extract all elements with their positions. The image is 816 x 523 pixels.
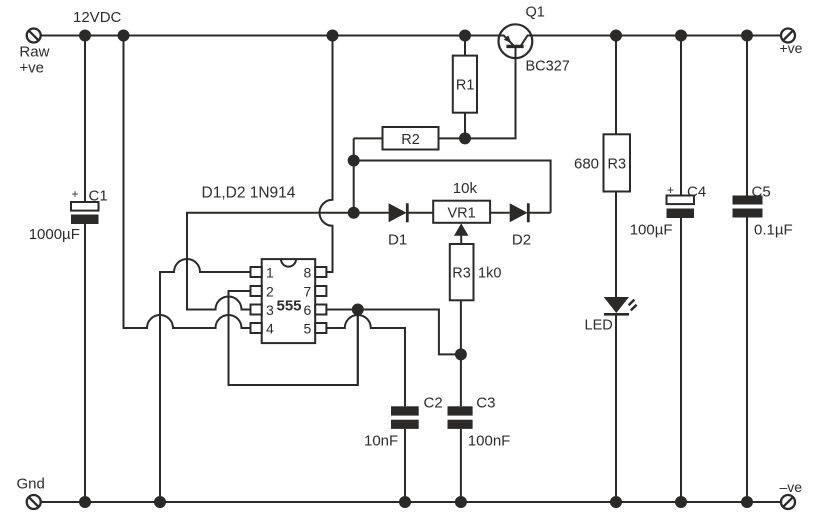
capacitor C3 <box>448 406 473 429</box>
pin box 1 <box>251 267 262 277</box>
svg-text:5: 5 <box>304 321 312 337</box>
svg-text:0.1µF: 0.1µF <box>754 222 793 239</box>
svg-text:–ve: –ve <box>780 479 803 495</box>
capacitor C2 <box>391 406 419 429</box>
svg-text:+ve: +ve <box>780 40 803 56</box>
svg-text:8: 8 <box>304 265 312 281</box>
terminal Raw +ve (top left) <box>27 29 41 43</box>
svg-text:1k0: 1k0 <box>478 265 501 281</box>
wire 555 pin1 to ground rail <box>160 259 251 502</box>
LED <box>604 297 637 314</box>
wire C3 to ground rail <box>460 429 462 502</box>
junction dot bottom rail C5 <box>741 496 753 508</box>
svg-text:100nF: 100nF <box>468 433 511 450</box>
svg-text:BC327: BC327 <box>526 59 570 75</box>
pin box 5 <box>315 323 326 333</box>
junction dot top rail C1 <box>79 30 91 42</box>
svg-text:12VDC: 12VDC <box>73 9 122 26</box>
resistor R2 <box>383 127 439 150</box>
junction dot top rail C4 <box>675 30 687 42</box>
wire pin3 node vertical <box>353 138 355 212</box>
svg-text:6: 6 <box>304 302 312 318</box>
svg-text:C2: C2 <box>424 395 443 412</box>
svg-text:Raw: Raw <box>19 44 49 61</box>
junction dot top rail pin4 branch <box>118 30 130 42</box>
resistor R1 <box>453 36 477 139</box>
junction dot node pin3/D1 <box>348 207 360 219</box>
wire bottom rail <box>41 501 781 503</box>
VR1 wiper arrow <box>454 223 468 244</box>
resistor R3 1k0 (timing) <box>450 244 474 300</box>
wire R1 node to Q1 base <box>465 47 516 138</box>
svg-text:R1: R1 <box>456 78 475 94</box>
wire C2 to ground rail <box>404 429 406 502</box>
svg-text:Q1: Q1 <box>526 5 545 21</box>
junction dot R3/C3 <box>455 348 467 360</box>
pin box 3 <box>251 305 262 315</box>
diode D2 <box>490 203 550 222</box>
svg-text:+ve: +ve <box>19 60 44 77</box>
svg-text:LED: LED <box>585 318 613 334</box>
wire 555 pin3 output to diode row <box>187 213 354 310</box>
svg-text:R3: R3 <box>608 156 627 172</box>
IC U1 555 body <box>262 259 316 343</box>
resistor R3 680 (LED branch) <box>604 36 631 298</box>
svg-text:10nF: 10nF <box>364 433 398 450</box>
terminal +ve (top right) <box>781 29 795 43</box>
svg-text:D1,D2 1N914: D1,D2 1N914 <box>202 184 296 201</box>
svg-text:1: 1 <box>266 265 274 281</box>
capacitor C1 <box>71 202 99 224</box>
svg-text:1000µF: 1000µF <box>29 226 80 243</box>
junction dot bottom rail C2 <box>399 496 411 508</box>
svg-text:D1: D1 <box>388 232 407 249</box>
junction dot bottom rail pin1 <box>154 496 166 508</box>
junction dot bottom rail LED <box>610 496 622 508</box>
transistor Q1 BC327 <box>499 24 533 60</box>
wire LED to ground rail <box>615 314 617 502</box>
junction dot top rail C5 <box>741 30 753 42</box>
junction dot top rail R1 <box>459 30 471 42</box>
wire top rail right of Q1 <box>532 35 781 37</box>
junction dot bottom rail C3 <box>455 496 467 508</box>
svg-text:C1: C1 <box>89 188 108 205</box>
wire to R2 left <box>354 137 383 139</box>
svg-text:+: + <box>72 187 79 201</box>
svg-text:7: 7 <box>304 284 312 300</box>
pin box 7 <box>315 286 326 296</box>
pin box 8 <box>315 267 326 277</box>
wire 555 pin5 to C2 <box>326 315 405 406</box>
terminal -ve (bottom right) <box>781 495 795 509</box>
svg-text:100µF: 100µF <box>630 222 673 239</box>
capacitor C5 <box>733 36 763 503</box>
wire D2 cathode loop back to pin3 node <box>354 161 551 213</box>
svg-text:R3: R3 <box>452 265 471 281</box>
svg-text:10k: 10k <box>453 180 478 197</box>
wire 555 pin6 to R3/C3 node <box>326 310 461 355</box>
junction dot R1/R2/base <box>459 132 471 144</box>
svg-text:+: + <box>667 183 674 197</box>
svg-text:C4: C4 <box>687 184 706 201</box>
junction dot top rail pin8 branch <box>327 30 339 42</box>
wire 555 pin2 to pin6 node <box>229 291 358 385</box>
svg-text:2: 2 <box>266 284 274 300</box>
pin box 6 <box>315 305 326 315</box>
svg-text:VR1: VR1 <box>447 206 475 222</box>
svg-text:680: 680 <box>574 155 599 172</box>
wire C1 branch upper <box>84 36 86 203</box>
pin box 4 <box>251 323 262 333</box>
pin box 2 <box>251 286 262 296</box>
svg-text:3: 3 <box>266 302 274 318</box>
junction dot node pin3/loop <box>348 155 360 167</box>
svg-text:R2: R2 <box>401 132 420 148</box>
terminal Gnd (bottom left) <box>27 495 41 509</box>
capacitor C4 <box>667 36 695 503</box>
junction dot bottom rail C1 <box>79 496 91 508</box>
wire pin6 node down to pin2 link <box>357 310 359 386</box>
potentiometer VR1 <box>433 201 490 223</box>
svg-text:C5: C5 <box>752 184 771 201</box>
svg-text:Gnd: Gnd <box>17 476 45 493</box>
wire C1 branch lower <box>84 224 86 502</box>
wire R2 right to R1 node <box>439 137 466 139</box>
junction dot pin6/pin2 <box>352 304 364 316</box>
wire 555 pin4 branch from top rail <box>124 36 251 329</box>
svg-text:4: 4 <box>266 321 274 337</box>
wire R3 bottom to C3 <box>460 300 462 406</box>
diode D1 <box>354 203 434 222</box>
svg-text:C3: C3 <box>476 395 495 412</box>
wire 555 pin8 to top rail with hop <box>320 36 333 273</box>
svg-text:555: 555 <box>277 298 302 315</box>
wire top rail left of Q1 <box>41 35 500 37</box>
svg-text:D2: D2 <box>512 232 531 249</box>
junction dot bottom rail C4 <box>675 496 687 508</box>
junction dot top rail R3 680 <box>610 30 622 42</box>
